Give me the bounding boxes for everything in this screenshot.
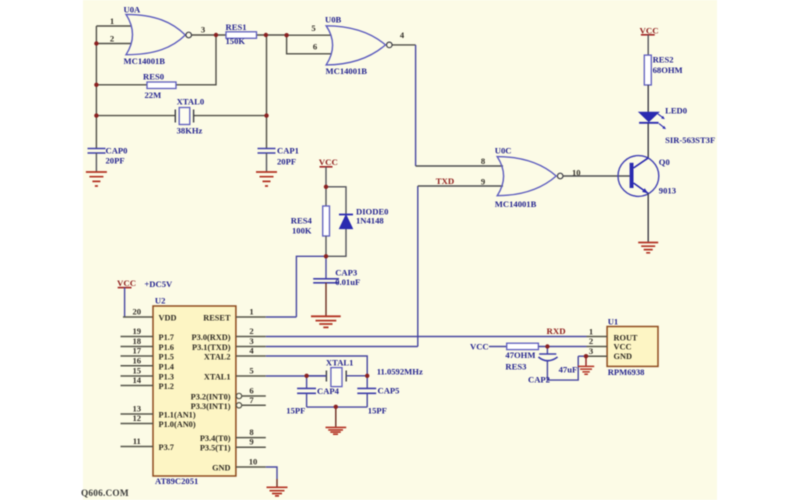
svg-text:10: 10 (249, 457, 258, 467)
node dot (XTAL1 left) (304, 374, 308, 378)
svg-text:U0A: U0A (124, 5, 142, 15)
svg-text:P3.0(RXD): P3.0(RXD) (192, 333, 231, 342)
svg-text:P3.4(T0): P3.4(T0) (200, 434, 231, 443)
power VCC (reset) (319, 157, 338, 187)
svg-text:150K: 150K (226, 36, 246, 46)
svg-text:38KHz: 38KHz (177, 126, 203, 136)
node dot (XTAL0 right) (264, 113, 268, 117)
nor gate U0C (481, 146, 581, 210)
LED LED0 (639, 106, 715, 146)
svg-text:2: 2 (249, 326, 253, 336)
svg-text:VCC: VCC (614, 343, 632, 352)
capacitor CAP0 (88, 146, 128, 172)
svg-text:XTAL1: XTAL1 (326, 358, 354, 368)
svg-text:100K: 100K (292, 226, 312, 236)
svg-text:15PF: 15PF (286, 406, 305, 416)
svg-text:47uF: 47uF (559, 365, 578, 375)
pin 18 P1.6 (121, 336, 174, 352)
crystal XTAL1 (307, 358, 423, 387)
wire RES4 bottom lead (325, 236, 327, 256)
svg-text:Q606.COM: Q606.COM (81, 489, 129, 499)
svg-text:15PF: 15PF (368, 406, 387, 416)
pin 3 P3.1 TXD (192, 336, 418, 352)
node dot (rail RES0) (94, 83, 98, 87)
wire TXD riser to U0C pin9 (417, 186, 419, 347)
capacitor CAP1 (258, 146, 299, 172)
svg-text:CAP2: CAP2 (528, 375, 550, 385)
svg-text:CAP4: CAP4 (317, 386, 340, 396)
node dot (rail XTAL0) (94, 113, 98, 117)
power VCC (LED) (640, 26, 659, 56)
svg-text:MC14001B: MC14001B (326, 66, 368, 76)
node dot (U0B inputs) (284, 33, 288, 37)
svg-text:0.01uF: 0.01uF (335, 277, 360, 287)
svg-text:P1.1(AN1): P1.1(AN1) (159, 411, 196, 420)
svg-text:P1.6: P1.6 (159, 343, 174, 352)
svg-text:9: 9 (481, 176, 485, 186)
svg-text:U2: U2 (155, 296, 166, 306)
svg-text:3: 3 (201, 25, 205, 35)
node dot (VCC reset) (324, 185, 328, 189)
svg-text:11.0592MHz: 11.0592MHz (377, 367, 423, 377)
pin 17 P1.5 (121, 346, 174, 362)
svg-text:+DC5V: +DC5V (144, 279, 173, 289)
svg-text:P3.3(INT1): P3.3(INT1) (191, 402, 231, 411)
svg-text:9013: 9013 (659, 186, 676, 196)
svg-text:P1.3: P1.3 (159, 373, 174, 382)
pin 8 P3.4 T0 (200, 427, 266, 443)
wire RES1 leads (216, 34, 287, 36)
svg-text:20PF: 20PF (106, 156, 125, 166)
svg-text:VCC: VCC (470, 341, 489, 351)
ground (Q0) (638, 243, 658, 253)
svg-text:P3.7: P3.7 (159, 443, 174, 452)
ground (CAP0) (86, 172, 107, 186)
svg-text:4: 4 (400, 30, 405, 40)
pin 1 ROUT (587, 326, 608, 336)
wire diode branch (326, 187, 346, 256)
svg-text:22M: 22M (145, 90, 162, 100)
svg-text:CAP0: CAP0 (106, 146, 128, 156)
svg-text:RES1: RES1 (226, 22, 247, 32)
capacitor CAP5 (357, 376, 399, 416)
svg-text:RPM6938: RPM6938 (608, 367, 645, 377)
svg-text:Q0: Q0 (659, 157, 670, 167)
ground (MCU GND) (267, 487, 288, 496)
svg-text:MC14001B: MC14001B (495, 199, 537, 209)
svg-text:12: 12 (133, 413, 142, 423)
node dot (rail pin2) (94, 41, 98, 45)
wire U1 pin3 to ground (578, 355, 586, 357)
wire right rail to CAP1 (266, 35, 268, 149)
wire U0A pin1 (96, 25, 131, 27)
svg-text:2: 2 (589, 336, 593, 346)
svg-text:15: 15 (133, 366, 142, 376)
svg-text:2: 2 (110, 34, 114, 44)
wire RES4 top lead (325, 187, 327, 206)
svg-text:GND: GND (212, 464, 230, 473)
svg-text:U0C: U0C (495, 146, 512, 156)
pin 15 P1.3 (121, 366, 174, 382)
svg-text:P1.5: P1.5 (159, 353, 174, 362)
svg-text:6: 6 (313, 42, 318, 52)
crystal XTAL0 (175, 97, 204, 136)
pin 20 VDD (133, 307, 177, 323)
svg-text:LED0: LED0 (665, 106, 687, 116)
svg-text:ROUT: ROUT (614, 334, 638, 343)
node dot (CAP2 top) (545, 344, 549, 348)
svg-text:13: 13 (133, 404, 142, 414)
svg-text:8: 8 (249, 427, 254, 437)
svg-text:1: 1 (110, 16, 114, 26)
svg-text:CAP1: CAP1 (277, 146, 299, 156)
svg-text:47OHM: 47OHM (505, 350, 535, 360)
svg-text:P3.1(TXD): P3.1(TXD) (192, 343, 231, 352)
svg-text:AT89C2051: AT89C2051 (155, 476, 198, 486)
pin 11 P3.7 (121, 436, 174, 452)
svg-text:VDD: VDD (159, 313, 177, 322)
pin 13 P1.1 (121, 404, 196, 420)
pin 7 P3.3 INT1 (191, 395, 266, 411)
transistor Q0 (618, 156, 676, 197)
svg-text:9: 9 (249, 437, 253, 447)
wire U0B out to U0C pin8 (416, 165, 503, 167)
resistor RES1 (226, 22, 257, 46)
pin 6 P3.2 INT0 (191, 386, 266, 402)
svg-text:U0B: U0B (325, 15, 342, 25)
pin 10 GND (212, 457, 277, 487)
svg-text:P3.5(T1): P3.5(T1) (200, 444, 231, 453)
ir receiver U1 body (607, 316, 658, 377)
capacitor CAP4 (286, 376, 339, 416)
svg-text:1N4148: 1N4148 (356, 216, 384, 226)
mcu U2 body (153, 296, 236, 487)
svg-text:RES4: RES4 (291, 216, 313, 226)
capacitor CAP2 electrolytic (528, 347, 578, 385)
pin 12 P1.0 (121, 413, 196, 429)
svg-text:5: 5 (249, 366, 253, 376)
svg-text:3: 3 (249, 336, 253, 346)
wire U0C output to Q0 base (563, 175, 630, 177)
svg-text:CAP3: CAP3 (335, 268, 357, 278)
svg-text:RES0: RES0 (143, 72, 164, 82)
svg-text:P1.2: P1.2 (159, 382, 174, 391)
svg-text:1: 1 (589, 326, 593, 336)
pin 5 XTAL1 (204, 366, 326, 382)
svg-text:19: 19 (133, 326, 142, 336)
resistor RES0 (143, 72, 176, 101)
node dot (caps gnd) (334, 405, 338, 409)
svg-text:SIR-563ST3F: SIR-563ST3F (665, 135, 715, 145)
svg-text:RES3: RES3 (505, 362, 526, 372)
svg-text:RES2: RES2 (653, 55, 674, 65)
wire Q0 emitter to ground (647, 194, 649, 242)
nor gate U0B (311, 15, 405, 77)
svg-text:16: 16 (133, 355, 142, 365)
pin 19 P1.7 (121, 326, 174, 342)
power VCC (+DC5V) (117, 278, 173, 317)
svg-text:CAP5: CAP5 (378, 386, 400, 396)
wire U0B output pin4 (392, 44, 415, 46)
svg-text:3: 3 (589, 346, 593, 356)
pin 1 RESET (203, 307, 296, 323)
node dot (pin3 node) (214, 33, 218, 37)
ground (crystal) (326, 427, 347, 434)
diode DIODE0 (339, 207, 388, 229)
wire U0A output pin3 (192, 34, 216, 36)
svg-text:P3.2(INT0): P3.2(INT0) (191, 393, 231, 402)
pin 3 GND (587, 346, 608, 356)
wire U0B out riser (415, 45, 417, 166)
pin 2 P3.0 RXD (192, 326, 587, 342)
svg-text:XTAL1: XTAL1 (204, 373, 231, 382)
wire caps ground bus (307, 406, 368, 408)
svg-text:MC14001B: MC14001B (124, 56, 166, 66)
svg-text:VCC: VCC (117, 278, 136, 288)
pin 16 P1.4 (121, 355, 174, 371)
svg-text:18: 18 (133, 336, 142, 346)
node dot (RES1 right) (264, 33, 268, 37)
svg-text:20PF: 20PF (277, 157, 296, 167)
svg-text:P1.0(AN0): P1.0(AN0) (159, 420, 196, 429)
ground (U1) (578, 356, 594, 374)
svg-text:GND: GND (614, 352, 632, 361)
wire LED to Q0 collector (647, 124, 649, 159)
pin 2 VCC (587, 336, 608, 346)
svg-text:4: 4 (249, 346, 254, 356)
pin 9 P3.5 T1 (200, 437, 266, 453)
svg-text:14: 14 (133, 375, 142, 385)
wire TXD to U0C pin9 (418, 185, 503, 187)
ground (CAP3) (311, 316, 341, 327)
resistor RES2 (644, 55, 682, 86)
svg-text:XTAL2: XTAL2 (204, 353, 231, 362)
svg-text:RXD: RXD (547, 326, 566, 336)
resistor RES3 (505, 343, 538, 371)
ground (CAP1) (256, 172, 277, 186)
svg-text:1: 1 (249, 307, 253, 317)
wire reset node to MCU (296, 256, 326, 317)
svg-text:20: 20 (133, 307, 142, 317)
schematic sheet background (83, 0, 717, 500)
svg-text:8: 8 (481, 156, 486, 166)
node dot (reset node) (324, 254, 328, 258)
svg-text:P1.4: P1.4 (159, 362, 174, 371)
svg-text:17: 17 (133, 346, 142, 356)
wire U0A pin2 (96, 43, 131, 45)
node dot (U1 gnd) (584, 354, 588, 358)
svg-text:68OHM: 68OHM (653, 65, 683, 75)
capacitor CAP3 (313, 268, 360, 316)
svg-text:U1: U1 (608, 316, 619, 326)
wire RES0 feedback (96, 35, 216, 85)
svg-text:P1.7: P1.7 (159, 333, 174, 342)
resistor RES4 (291, 206, 330, 236)
wire ground stem (335, 407, 337, 427)
wire RES2 to LED (647, 85, 649, 112)
svg-text:5: 5 (311, 23, 315, 33)
wire RES3 to U1 pin2 (538, 346, 586, 348)
svg-text:7: 7 (249, 395, 254, 405)
svg-text:RESET: RESET (203, 313, 231, 322)
wire left rail (95, 26, 97, 149)
wire VCC to RES3 (489, 346, 507, 348)
pin 4 XTAL2 (204, 346, 367, 376)
svg-text:XTAL0: XTAL0 (177, 97, 205, 107)
node dot (XTAL1 right) (365, 374, 369, 378)
svg-text:11: 11 (133, 436, 141, 446)
nor gate U0A (110, 5, 205, 67)
svg-text:VCC: VCC (319, 157, 338, 167)
svg-text:TXD: TXD (436, 176, 455, 186)
wire XTAL0 leads (96, 115, 266, 117)
pin 14 P1.2 (121, 375, 174, 391)
wire U0B tied inputs (287, 35, 331, 54)
